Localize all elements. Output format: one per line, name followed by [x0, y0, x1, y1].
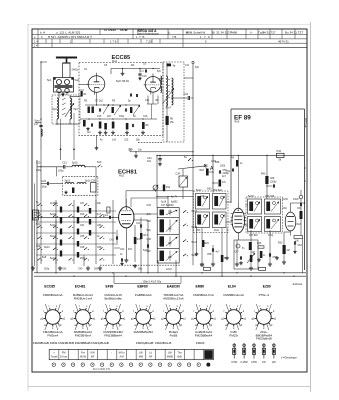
svg-text:120p: 120p: [268, 235, 274, 237]
svg-text:P10: P10: [277, 149, 282, 153]
label ECH81: [118, 169, 138, 177]
resistor R15: [134, 237, 142, 244]
coil Sp4 trimmer: [65, 98, 78, 119]
trimmer T1: [163, 88, 175, 104]
node A: [178, 164, 214, 172]
svg-text:7,20: 7,20: [146, 40, 152, 44]
capacitor C13: [125, 108, 126, 111]
svg-text:C35: C35: [80, 236, 85, 238]
label D63: [207, 188, 212, 191]
capacitor C44 chain: [147, 155, 162, 166]
svg-text:17 R143 UCW: 17 R143 UCW: [104, 28, 128, 32]
svg-text:H 52 I. A2/R25 L 871 5324 A R: H 52 I. A2/R25 L 871 5324 A R T: [48, 35, 92, 39]
labels T4: [248, 196, 275, 237]
resistor R3: [88, 107, 94, 114]
wire: [122, 68, 123, 72]
resistor R33: [278, 243, 290, 255]
parts above EABC80: [226, 155, 243, 203]
svg-text:C46: C46: [147, 221, 152, 223]
resistor R4f: [130, 107, 132, 113]
matrix left labels: [36, 202, 47, 259]
svg-text:5w18: 5w18: [248, 196, 254, 198]
wire: [147, 232, 149, 273]
svg-text:R38: R38: [215, 162, 220, 164]
svg-text:C33: C33: [97, 225, 102, 227]
page edge lines: [28, 22, 311, 392]
svg-text:MWB: MWB: [167, 356, 173, 359]
title table: [32, 28, 307, 48]
capacitor C17: [34, 123, 43, 127]
svg-text:C26: C26: [91, 179, 96, 182]
tube socket EL84: [221, 293, 246, 337]
svg-text:ECH81: ECH81: [75, 285, 86, 289]
wire: [67, 93, 70, 98]
wire: [35, 123, 42, 137]
svg-text:BrB: BrB: [178, 356, 182, 359]
tube socket EABC80: [161, 293, 186, 337]
label Teil: [93, 367, 111, 371]
svg-text:Tg 34 31 727: Tg 34 31 727: [258, 31, 276, 35]
svg-text:C40: C40: [78, 269, 83, 271]
svg-text:FM: FM: [62, 351, 66, 355]
resistor R40: [261, 155, 277, 199]
grid lead: [79, 85, 88, 90]
wire IF feeds: [156, 196, 193, 208]
bus label box: [114, 273, 181, 284]
capacitor C34 box: [176, 173, 188, 188]
svg-text:EABC80: EABC80: [167, 285, 180, 289]
svg-text:150p: 150p: [44, 269, 50, 271]
svg-text:C62: C62: [298, 245, 303, 247]
box M: [33, 210, 39, 220]
IF labels: [147, 202, 198, 260]
wire: [55, 220, 57, 273]
label Sym: [35, 119, 41, 123]
resistor bank lower: [99, 122, 129, 130]
wire: [97, 92, 159, 105]
svg-text:1 7 8: 1 7 8: [110, 40, 117, 44]
resistor R10: [277, 149, 285, 162]
label EZ80 socket: [263, 285, 271, 289]
wire: [126, 190, 193, 207]
capacitor C59: [269, 253, 277, 259]
tiny parts row: [171, 197, 178, 204]
dashed segment: [138, 141, 163, 143]
svg-text:5p16: 5p16: [161, 202, 167, 204]
switch 5w9: [36, 162, 102, 172]
ground row AF: [200, 256, 279, 270]
svg-text:b. H: b. H: [40, 31, 45, 35]
wire: [70, 96, 79, 98]
svg-text:C42: C42: [120, 249, 125, 251]
resistor R20: [202, 240, 210, 247]
svg-text:R12: R12: [204, 166, 209, 168]
resistor fb: [72, 188, 74, 194]
svg-text:MW: MW: [139, 356, 144, 359]
wire: [166, 63, 168, 142]
svg-text:1W: 1W: [262, 361, 266, 364]
svg-text:NF: NF: [149, 356, 153, 359]
svg-text:Fre: Fre: [81, 351, 85, 355]
wire: [282, 232, 291, 264]
fuse F2: [241, 343, 249, 364]
ECC85 section dashed box: [79, 63, 163, 136]
svg-text:5p4: 5p4: [74, 108, 79, 111]
svg-text:1/4W: 1/4W: [293, 199, 299, 201]
svg-text:250p: 250p: [80, 258, 86, 260]
coil Sp7: [159, 76, 168, 106]
resistor on bus 2: [259, 267, 266, 270]
svg-text:C31: C31: [80, 225, 85, 227]
tube V5 EM80: [285, 207, 296, 234]
svg-text:R17: R17: [128, 249, 133, 251]
trimmer C12: [114, 105, 121, 115]
wire: [40, 62, 41, 150]
capacitor C16b: [132, 124, 133, 127]
svg-text:C27: C27: [80, 203, 85, 205]
svg-text:FM23r: FM23r: [196, 341, 205, 345]
svg-text:0,5W: 0,5W: [231, 361, 237, 364]
box U: [107, 207, 110, 213]
tube V4 EABC80: [231, 208, 247, 233]
wire: [284, 232, 303, 273]
svg-text:5w11: 5w11: [50, 225, 56, 227]
svg-text:LW: LW: [139, 351, 143, 355]
tube V1a ECC85 triode: [87, 73, 105, 95]
svg-text:1 T B: 1 T B: [136, 35, 145, 39]
svg-text:2W: 2W: [272, 361, 276, 364]
svg-text:3x450k: 3x450k: [50, 203, 58, 205]
capacitor C23: [42, 180, 49, 189]
svg-text:EF89: EF89: [106, 285, 114, 289]
svg-text:5w13: 5w13: [44, 247, 50, 249]
labels right col: [282, 199, 302, 210]
parts left of bank: [136, 217, 149, 272]
wire row 2: [80, 118, 157, 119]
svg-text:C41: C41: [110, 240, 115, 242]
svg-text:C16: C16: [143, 116, 148, 118]
wire stubs: [195, 202, 248, 260]
svg-text:ƒ=Gestänge: ƒ=Gestänge: [281, 355, 297, 359]
svg-text:C68: C68: [270, 178, 275, 180]
svg-text:Antenne: Antenne: [292, 282, 303, 286]
fuse F4: [262, 343, 266, 364]
svg-text:AM29BUc13nA: AM29BUc13nA: [163, 296, 184, 300]
svg-text:BF: BF: [91, 356, 95, 359]
svg-text:R18: R18: [200, 170, 205, 172]
resistor r16: [163, 185, 171, 191]
svg-text:C15: C15: [97, 116, 102, 118]
capacitor C26 box: [91, 179, 97, 192]
svg-text:C38: C38: [80, 247, 85, 249]
svg-text:A: A: [210, 166, 214, 172]
volume pot: [247, 253, 255, 263]
label ECH81 socket: [75, 285, 86, 289]
svg-text:Bl. 31 34 327/7468: Bl. 31 34 327/7468: [212, 31, 237, 35]
svg-text:100p: 100p: [58, 170, 64, 173]
capacitor C19: [184, 93, 190, 100]
ground: [121, 72, 125, 76]
ground row: [98, 131, 145, 135]
wire: [171, 97, 187, 99]
svg-text:240Ω: 240Ω: [72, 68, 78, 72]
label C15: [97, 116, 148, 118]
svg-text:S-Kurz: S-Kurz: [60, 356, 68, 359]
svg-text:FM23yBUwB FM23BUs-B: FM23yBUwB FM23BUs-B: [136, 341, 171, 345]
wire row 1: [85, 104, 140, 105]
IF transformer T3 cans: [194, 191, 229, 233]
ferrite antenna dashed box: [63, 176, 98, 195]
labels under box: [100, 140, 141, 142]
wire: [114, 225, 135, 262]
svg-text:MüTa: MüTa: [80, 356, 87, 359]
svg-text:C57 8k2: C57 8k2: [249, 235, 258, 237]
wire: [95, 167, 97, 218]
svg-text:C11: C11: [145, 100, 150, 102]
svg-text:C21: C21: [62, 160, 67, 164]
svg-text:EL84: EL84: [228, 285, 236, 289]
svg-text:5ym: 5ym: [35, 119, 41, 123]
svg-text:2x0,8: 2x0,8: [166, 269, 172, 271]
border frame: [32, 29, 307, 372]
label 40n7: [166, 107, 172, 110]
svg-text:4674 31: 4674 31: [278, 40, 289, 44]
svg-text:C39: C39: [97, 247, 102, 249]
indicator circles: [52, 363, 210, 366]
svg-text:R13: R13: [144, 235, 149, 237]
svg-text:2200p: 2200p: [223, 173, 230, 175]
wire: [156, 155, 158, 196]
label f-Gestaenge: [281, 355, 297, 359]
wire: [182, 169, 184, 199]
wire bus 2: [34, 276, 306, 277]
transformer Sp1 Sp2: [47, 78, 79, 93]
wire: [184, 155, 193, 265]
wire: [37, 166, 96, 176]
svg-text:FM23B-BnA: FM23B-BnA: [75, 333, 91, 337]
svg-text:LW: LW: [168, 351, 172, 355]
tube V2 ECH81: [119, 199, 134, 228]
svg-text:Teil 4 4330 070: Teil 4 4330 070: [93, 367, 111, 371]
svg-text:FM29BUwB FM/9r FM23B-BrB FM23B: FM29BUwB FM/9r FM23B-BrB FM23BBwB FM23yB…: [33, 341, 109, 345]
coil Sp8: [168, 78, 173, 105]
svg-text:1M: 1M: [252, 252, 255, 254]
svg-text:5p2: 5p2: [75, 78, 80, 82]
svg-text:Rö3: Rö3: [235, 120, 240, 124]
svg-text:R28: R28: [200, 266, 205, 268]
matrix labels: [44, 203, 102, 260]
svg-text:C23: C23: [42, 180, 47, 183]
svg-text:Rö2: Rö2: [119, 174, 124, 178]
wire: [41, 150, 63, 200]
capacitor C41: [110, 236, 118, 241]
ground: [61, 93, 64, 96]
svg-text:5p16: 5p16: [72, 161, 78, 164]
svg-text:5w17: 5w17: [196, 190, 202, 192]
label EF89: [234, 114, 251, 123]
wire grid line: [35, 217, 119, 218]
svg-text:ECC85: ECC85: [44, 285, 55, 289]
ground: [95, 146, 99, 150]
wire: [237, 203, 239, 240]
text above strip: [33, 341, 205, 345]
tube socket ECC85: [40, 293, 65, 337]
svg-text:C47 5w20M: C47 5w20M: [161, 205, 173, 207]
label V245: [304, 118, 307, 128]
ground: [61, 93, 64, 96]
wire: [206, 164, 222, 183]
fuse F5: [272, 343, 276, 364]
coil Sp3: [53, 98, 59, 119]
svg-text:FM23BBwA4: FM23BBwA4: [104, 333, 122, 337]
trimmer small: [153, 185, 159, 191]
svg-text:5w14: 5w14: [50, 258, 56, 260]
label 0.1A: [103, 214, 111, 219]
svg-text:D63: D63: [207, 188, 212, 191]
label ECC85 socket: [44, 285, 55, 289]
resistor R19: [219, 180, 227, 187]
right column chain: [297, 190, 303, 236]
svg-text:5w9: 5w9: [97, 162, 102, 164]
svg-text:FM09BUs2mA: FM09BUs2mA: [43, 293, 63, 297]
resistor R9: [142, 122, 149, 129]
tube socket EF89: [101, 293, 126, 337]
svg-text:EM80: EM80: [196, 285, 205, 289]
svg-text:C10: C10: [142, 75, 147, 78]
label EBF80 socket: [137, 285, 147, 289]
tube socket ECH81: [71, 293, 96, 337]
svg-text:FM23r: FM23r: [229, 333, 238, 337]
switch matrix contacts: [37, 203, 104, 260]
svg-text:C13: C13: [136, 223, 141, 225]
svg-text:C52 5p0: C52 5p0: [213, 190, 223, 192]
labels T3: [196, 162, 227, 232]
capacitor C8: [99, 108, 100, 111]
svg-text:1 4: 1 4: [34, 39, 38, 43]
svg-text:5w6 7/8 0H: 5w6 7/8 0H: [116, 79, 129, 83]
svg-text:1M: 1M: [287, 250, 290, 252]
svg-text:0,25W: 0,25W: [241, 361, 249, 364]
svg-text:R33: R33: [278, 243, 283, 245]
trimmer C14: [133, 105, 140, 115]
capacitor C42: [120, 258, 137, 267]
tube socket EM80: [191, 293, 216, 337]
svg-text:5p13: 5p13: [65, 180, 71, 183]
wire: [84, 228, 126, 266]
extra parts: [83, 94, 138, 135]
resistor R25: [257, 243, 264, 248]
EF89 box: [231, 109, 306, 270]
svg-text:0,5W: 0,5W: [251, 361, 257, 364]
svg-text:1 7 9: 1 7 9: [200, 35, 210, 39]
svg-text:6p832: 6p832: [171, 202, 178, 204]
svg-text:→100p 0,47µF 50p: →100p 0,47µF 50p: [140, 280, 162, 283]
tube socket EZ80: [251, 293, 276, 340]
capacitor C62: [294, 241, 302, 247]
wire left pair: [34, 184, 36, 267]
label ECC85: [112, 55, 131, 63]
label Antenne: [292, 282, 303, 286]
coil Sp5: [157, 71, 162, 93]
svg-text:C4B: C4B: [128, 149, 133, 151]
svg-text:100k: 100k: [220, 166, 226, 168]
wire HT rail: [156, 155, 304, 156]
wire: [134, 214, 157, 232]
matrix resistors: [60, 207, 91, 258]
svg-text:KW: KW: [91, 351, 96, 355]
svg-text:C48: C48: [147, 239, 152, 241]
coil L osc: [72, 161, 86, 167]
svg-text:2200p: 2200p: [270, 182, 277, 184]
svg-text:FM23BBwA4: FM23BBwA4: [195, 333, 213, 337]
svg-text:FM23B25mB4: FM23B25mB4: [134, 330, 154, 334]
resistor R5f: [112, 107, 114, 113]
svg-text:245V 1mA: 245V 1mA: [304, 118, 307, 128]
band switch strip: [49, 349, 213, 359]
wire: [56, 93, 79, 125]
svg-text:5w12: 5w12: [50, 236, 56, 238]
wire: [96, 135, 98, 146]
label EF89 socket: [106, 285, 114, 289]
svg-text:1 4: 1 4: [34, 44, 38, 48]
ground: [138, 77, 141, 80]
ground: [64, 191, 67, 194]
labels row: [84, 64, 147, 84]
coil Sp14: [77, 180, 91, 185]
svg-text:P75s--4: P75s--4: [259, 293, 270, 297]
svg-text:5p1: 5p1: [47, 78, 52, 82]
svg-text:EBF80: EBF80: [137, 285, 147, 289]
svg-text:100p: 100p: [119, 116, 125, 118]
svg-text:C29: C29: [80, 214, 85, 216]
svg-text:100p: 100p: [42, 187, 48, 189]
switch matrix wires: [36, 200, 116, 264]
svg-text:C25: C25: [124, 140, 129, 142]
resistor R22: [221, 255, 227, 262]
capacitor C58: [207, 248, 220, 256]
svg-text:EZ80: EZ80: [263, 285, 271, 289]
svg-text:FM29BUs1mAt: FM29BUs1mAt: [224, 293, 245, 297]
labels cluster: [204, 161, 217, 168]
capacitor C21: [58, 160, 67, 172]
svg-text:BmB6yUs8w: BmB6yUs8w: [105, 296, 123, 300]
svg-text:FM28Us-1mA: FM28Us-1mA: [74, 296, 93, 300]
svg-text:FM29BJu17mA: FM29BJu17mA: [193, 293, 214, 297]
svg-text:Tön: Tön: [177, 351, 182, 355]
fuse F1: [231, 343, 237, 364]
svg-text:C17: C17: [34, 123, 39, 126]
ground row AM: [31, 258, 128, 270]
svg-text:40n7: 40n7: [166, 107, 172, 110]
svg-text:110p: 110p: [214, 230, 220, 232]
svg-text:C45: C45: [147, 205, 152, 207]
AF enclosure box: [234, 240, 266, 269]
wire: [291, 202, 306, 207]
ratio detector cans: [246, 197, 283, 233]
wire: [36, 160, 38, 273]
IF transformer T1 dashed box: [163, 62, 184, 142]
coil box Sp3 Sp4 dashed: [52, 95, 80, 124]
coil Sp13: [65, 180, 75, 185]
svg-text:7 B: 7 B: [172, 35, 176, 39]
svg-text:5w: 5w: [184, 157, 187, 159]
fuse F3: [251, 343, 257, 364]
label EL84 socket: [228, 285, 236, 289]
labels tube2: [145, 100, 159, 102]
wire bus 1: [34, 272, 306, 273]
svg-text:C55 C56: C55 C56: [265, 196, 275, 198]
tube socket EBF80: [131, 293, 156, 334]
